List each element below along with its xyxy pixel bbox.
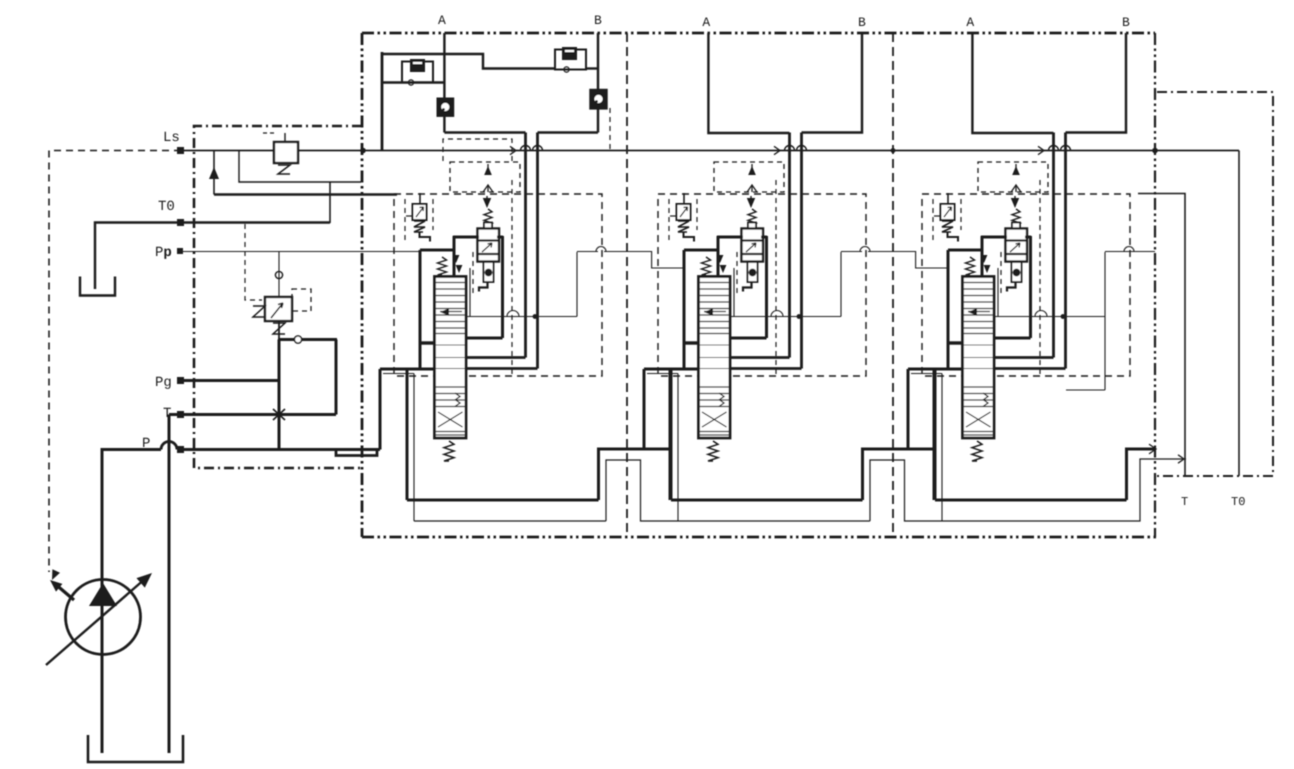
LS shuttle check arrows: [484, 166, 492, 175]
bridge pair vertical A (thick): [524, 133, 527, 358]
wire tank gallery joint 1 (thick bump): [599, 449, 671, 500]
wire Pg line (thick): [181, 379, 279, 382]
node Ls at inlet box edge: [360, 148, 366, 154]
wire drain to T port (right): [1138, 194, 1185, 477]
svg-text:A: A: [702, 15, 710, 30]
spool channels thin: [436, 357, 465, 359]
main spool valve body: [435, 277, 467, 439]
wire reducing valve outlet (thick): [278, 321, 280, 340]
svg-text:T: T: [1181, 495, 1188, 509]
port Ls tick: [177, 147, 184, 154]
wire P to compensator (thick): [420, 249, 454, 252]
pressure reducing valve spring M: [253, 306, 265, 317]
port relief valve B1: [555, 50, 586, 70]
pump variable arrow: [46, 578, 146, 665]
wire Pp tail joint 2: [891, 252, 948, 269]
check valve to Ls (arrow up): [213, 151, 215, 195]
hop arcs where bridge crosses Ls: [521, 146, 531, 151]
svg-text:B: B: [858, 15, 866, 30]
wire Ls/T0 return (right): [1238, 151, 1240, 477]
pilot relief valve Z spring: [278, 165, 290, 174]
wire Pp pilot supply line: [181, 251, 420, 253]
wire B2 work port: [802, 33, 863, 133]
spool hatch lower: [436, 386, 465, 388]
port T0 tick: [177, 219, 184, 226]
section 3 internals (reuse): [908, 133, 1155, 522]
check valve square B1: [591, 90, 607, 108]
port T tick: [177, 411, 184, 418]
wire P riser (thick): [379, 369, 382, 450]
wire Pg gallery vertical: [278, 340, 281, 450]
wire Pp loop thin: [469, 268, 471, 317]
wire A1 work port: [443, 33, 445, 99]
svg-text:Ls: Ls: [163, 130, 180, 146]
wire B1 work port: [597, 33, 599, 90]
main valve assembly boundary (dash-dot-dot box): [362, 32, 1155, 35]
wire A3 work port: [972, 33, 1053, 133]
wire thin tank leg: [383, 373, 414, 375]
compensator neck and ball: [484, 262, 494, 282]
LS shuttle dashed box: [450, 162, 520, 192]
section separator 2 (dash-dot): [892, 33, 894, 536]
section dashed envelope: [394, 194, 602, 376]
wire P step under box edge: [336, 450, 377, 456]
svg-text:B: B: [594, 13, 602, 28]
tank symbol main: [88, 735, 183, 762]
wire A2 work port: [708, 33, 789, 133]
chevron on Ls line: [510, 146, 516, 154]
wire Ls dashed feedback to pump: [49, 151, 181, 573]
wire T line (thick): [169, 413, 336, 416]
svg-text:T0: T0: [1231, 495, 1245, 509]
wire P riser s2 (thick): [643, 369, 646, 449]
node circle on outlet wire: [294, 336, 301, 343]
wire pilot box A1 bottom: [382, 81, 444, 83]
wire A1 top loop: [382, 54, 555, 69]
dashed stub below B1 check: [609, 108, 611, 150]
svg-text:Pg: Pg: [155, 375, 172, 391]
svg-text:A: A: [438, 13, 446, 28]
port relief valve A1: [402, 62, 433, 83]
wire thin gallery joint 2: [870, 460, 942, 521]
svg-text:B: B: [1122, 15, 1130, 30]
wire Pp tail joint 1: [627, 252, 684, 269]
end plate boundary (dash-dot box, right): [1157, 92, 1273, 476]
wire A1 check to bridge: [443, 116, 445, 133]
svg-text:A: A: [966, 15, 974, 30]
port Pp tick: [177, 248, 183, 254]
check valve square A1: [438, 99, 453, 116]
tank symbol T0 drain: [80, 277, 115, 296]
dashed pilot frame s1: [443, 139, 512, 161]
spool hatch upper: [436, 282, 465, 284]
wire thin gallery joint 1: [606, 460, 678, 521]
pressure reducing valve pilot line: [278, 252, 280, 298]
wire P riser s3 (thick): [907, 369, 910, 449]
pump case drain arrow: [54, 583, 74, 600]
spool left tab (thick): [420, 341, 435, 344]
wire B3 work port: [1066, 33, 1127, 133]
spool top cap spring: [438, 257, 447, 275]
port P tick: [177, 446, 184, 453]
section LS relief valve: [419, 193, 421, 204]
pump triangle (flow up): [89, 583, 117, 606]
inlet section boundary (dash-dot box): [194, 126, 362, 468]
wire drain gallery (thick): [214, 193, 397, 196]
wire Pp tail s3 end: [1126, 251, 1152, 253]
wire T0 line: [181, 221, 330, 223]
pressure reducing valve body: [265, 297, 292, 321]
hop P line over T return: [161, 442, 177, 450]
wire bridge A to spool (thick): [466, 356, 526, 359]
svg-text:Pp: Pp: [155, 245, 172, 261]
spool anticavitation X: [438, 412, 463, 427]
wire tank gallery joint 2 (thick bump): [863, 449, 935, 500]
arrow Ls feedback into pump: [52, 569, 60, 580]
wire tank gallery end (thick): [1127, 449, 1155, 500]
wire spool tank U left (thick): [406, 369, 409, 500]
compensator dashed drain: [472, 252, 474, 296]
wire thin gallery end: [1134, 459, 1186, 521]
section 1 internals group: [380, 133, 627, 522]
wire Ls main line: [181, 150, 1239, 152]
section 2 internals (reuse): [644, 133, 891, 522]
wire left wall s1 (thick): [381, 52, 384, 151]
wire compensator out to bridge (thick): [499, 236, 503, 239]
bridge pair vertical B (thick): [536, 133, 539, 369]
wire P supply from pump (thick): [102, 450, 161, 754]
section separator 1 (dash-dot): [626, 33, 628, 536]
pressure compensator body: [484, 223, 492, 229]
svg-text:T0: T0: [158, 199, 175, 215]
compensator pilot spring and arrows: [486, 196, 488, 202]
pilot relief valve loop wire: [239, 151, 361, 183]
compensator bottom spring: [479, 282, 488, 292]
wire bridge B to spool (thick): [466, 367, 538, 370]
pressure reducing valve dashed pilot box: [292, 289, 311, 311]
node Ls at separators: [891, 148, 896, 153]
pressure reducing valve outlet spring: [273, 323, 285, 334]
hop on Pp loop: [596, 247, 606, 252]
wire gallery to T vertical: [335, 340, 338, 415]
pilot relief valve Z body: [274, 142, 298, 163]
port Pg tick: [177, 377, 184, 384]
junction X at T and Pg gallery: [273, 409, 285, 420]
pump variable displacement circle: [66, 580, 141, 655]
spool bottom spring: [444, 441, 454, 461]
wire T return down to tank: [168, 415, 171, 754]
wire B1 check to bridge: [597, 108, 599, 132]
